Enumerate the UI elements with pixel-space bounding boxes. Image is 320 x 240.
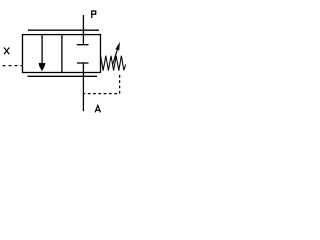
blocked port T (top, right box) — [77, 35, 89, 45]
proportional (continuous control) line top — [28, 29, 99, 31]
port P label — [92, 11, 96, 18]
adjustable return spring (zigzag) — [101, 56, 126, 71]
port A label — [95, 105, 100, 112]
port A connection line — [82, 73, 84, 112]
pilot line X (dashed) — [3, 65, 23, 67]
flow path arrow in left position box — [39, 35, 46, 72]
drain / pilot return line (dashed) to port A — [83, 75, 119, 94]
pilot port X label — [4, 48, 9, 55]
spring adjustment arrow — [112, 42, 120, 66]
valve body: two position boxes — [23, 35, 101, 73]
position divider line — [61, 35, 63, 73]
blocked port T (bottom, right box) — [77, 63, 89, 73]
port P connection line — [82, 15, 84, 35]
proportional (continuous control) line bottom — [28, 75, 98, 77]
